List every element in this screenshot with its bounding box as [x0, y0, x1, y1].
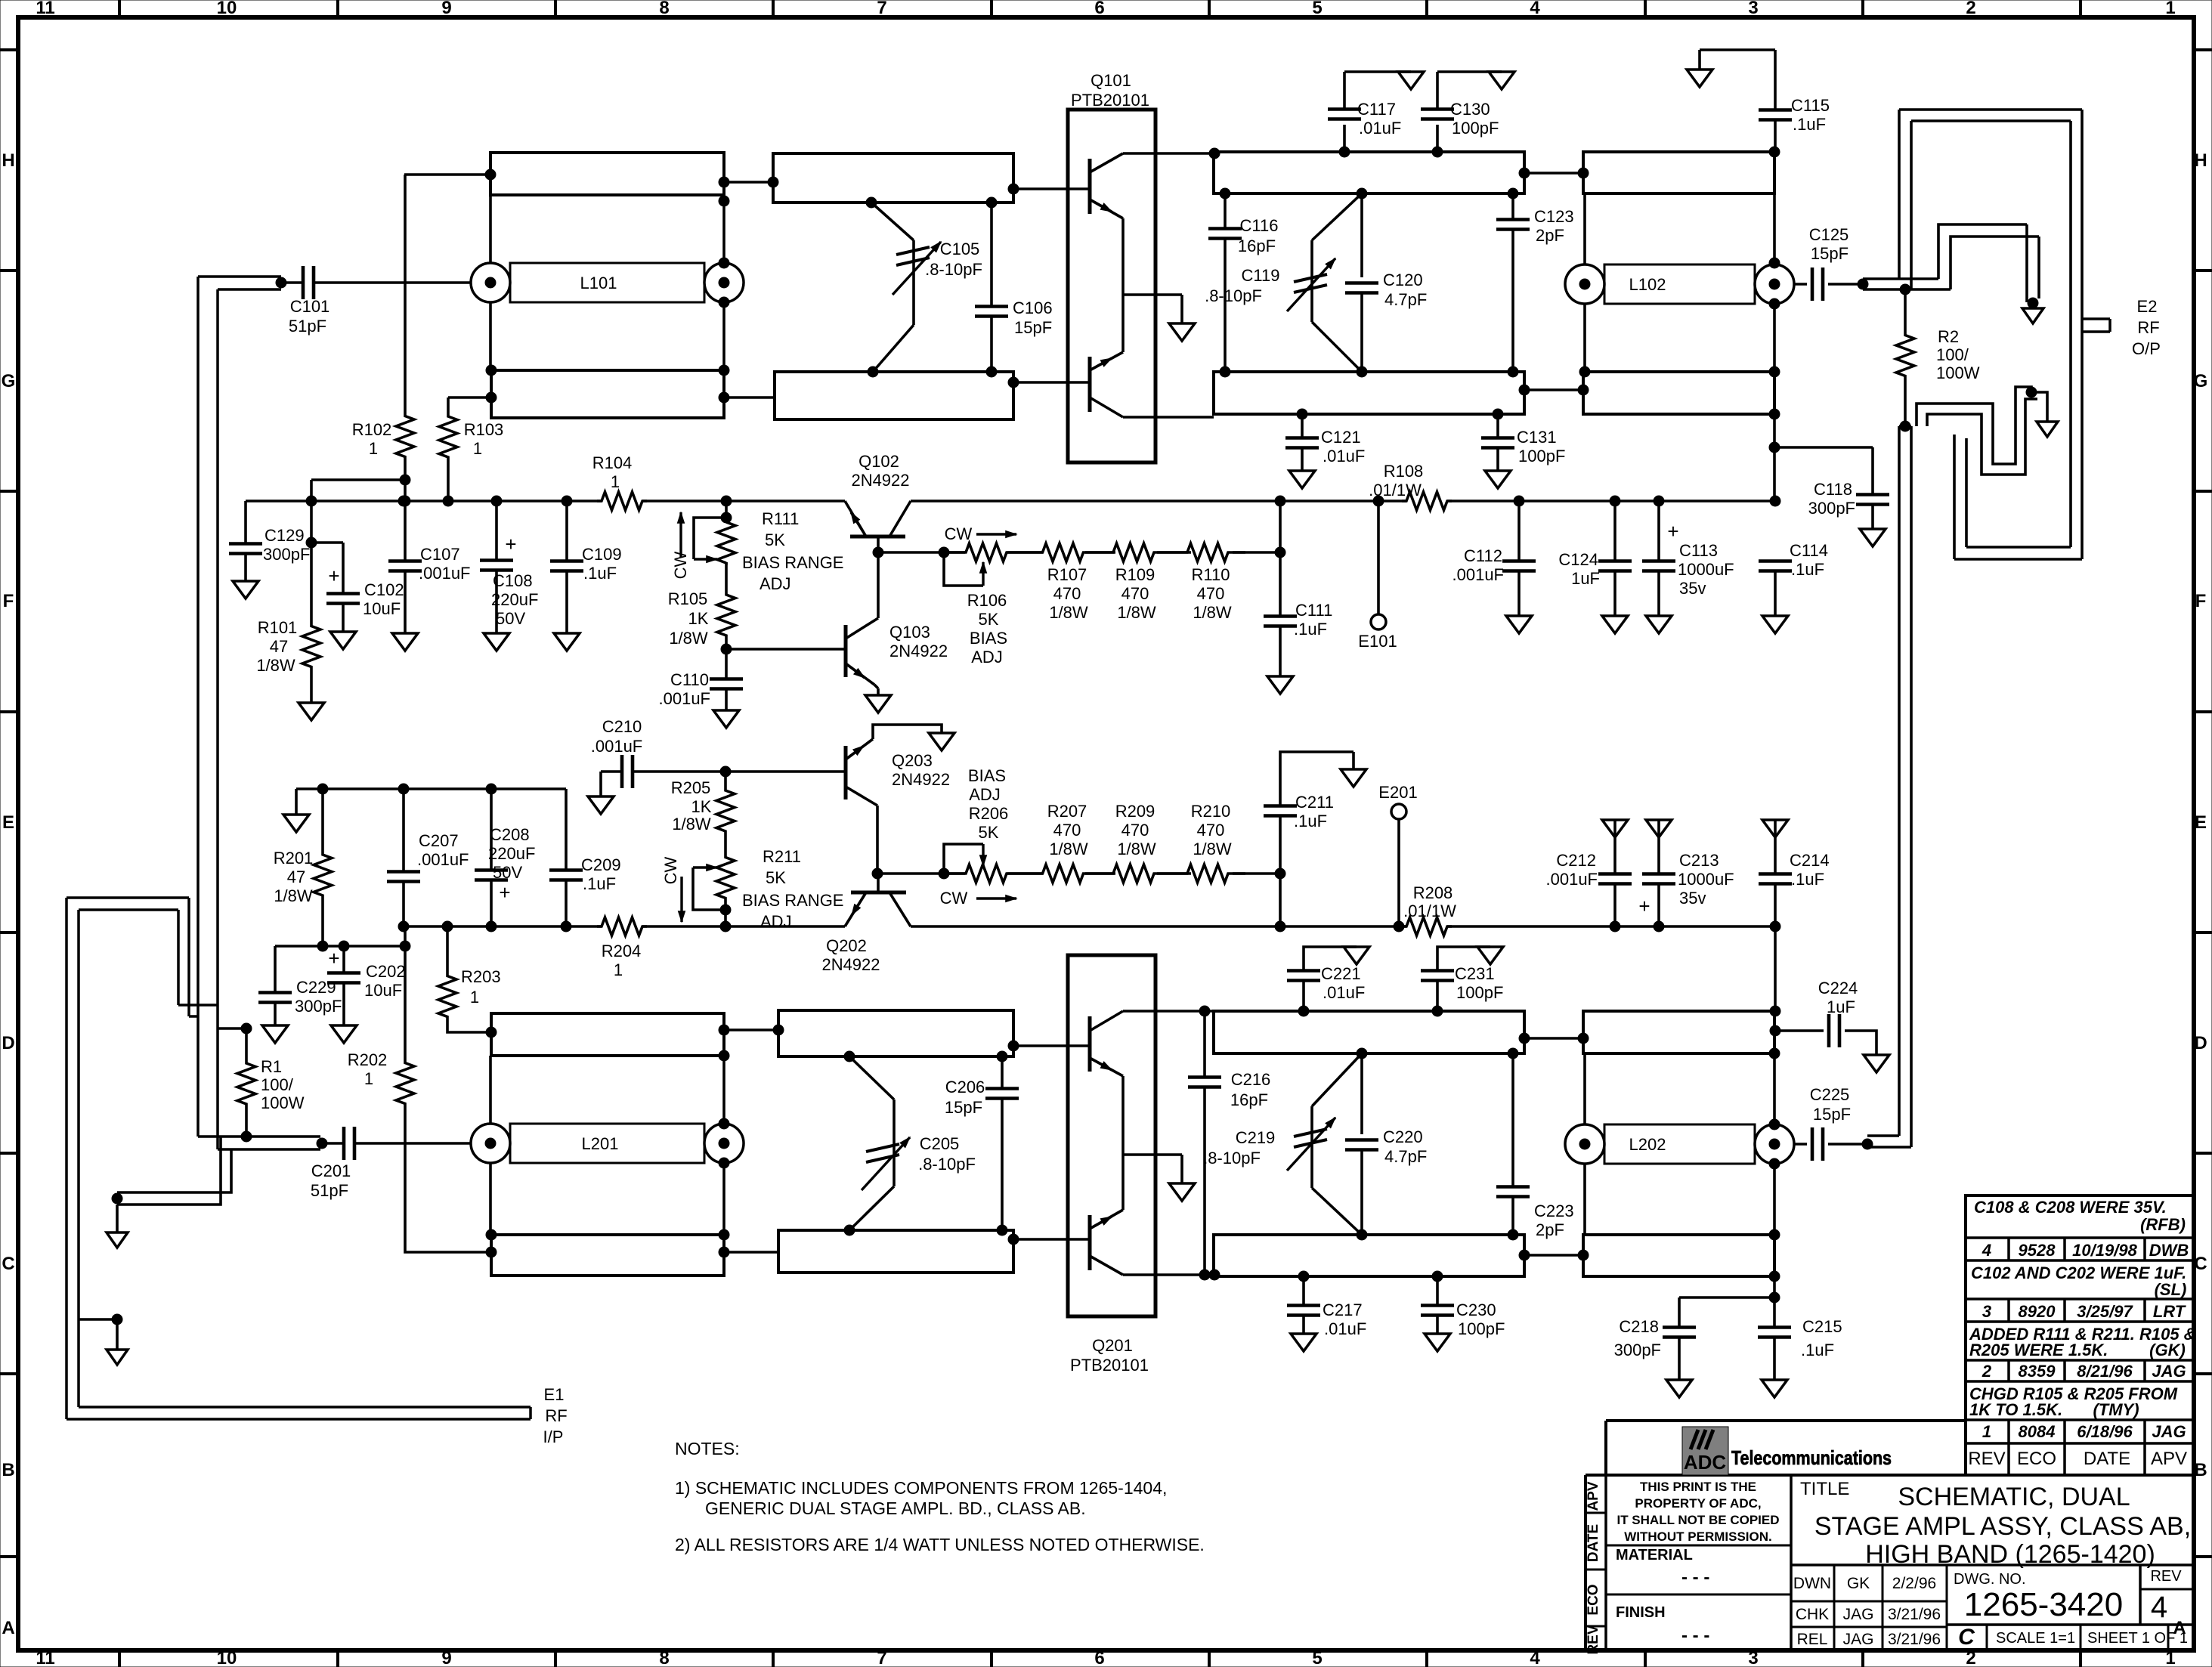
svg-text:PTB20101: PTB20101	[1071, 91, 1149, 110]
svg-text:3/21/96: 3/21/96	[1888, 1606, 1941, 1623]
svg-text:C124: C124	[1558, 550, 1598, 569]
transistor Q101 lower half	[1090, 352, 1123, 417]
svg-text:C116: C116	[1240, 216, 1279, 235]
svg-text:470: 470	[1197, 584, 1225, 603]
drawn checked released rows	[1793, 1575, 1941, 1648]
capacitor C118	[1774, 447, 1889, 546]
svg-text:10uF: 10uF	[363, 599, 401, 618]
svg-text:C110: C110	[670, 670, 709, 689]
output trace feed pair upper	[1899, 110, 1911, 289]
svg-text:LRT: LRT	[2153, 1302, 2186, 1321]
svg-text:REV: REV	[2150, 1568, 2182, 1585]
svg-text:E2: E2	[2137, 297, 2158, 316]
svg-text:PTB20101: PTB20101	[1070, 1356, 1149, 1375]
svg-text:15pF: 15pF	[945, 1098, 982, 1117]
output trace feed pair lower	[1867, 426, 1911, 1147]
capacitor C111	[1264, 496, 1332, 694]
svg-text:.01uF: .01uF	[1324, 1319, 1366, 1338]
arrow CW R211	[661, 856, 685, 922]
svg-text:C118: C118	[1814, 480, 1852, 499]
logo Telecommunications text	[1731, 1446, 1892, 1469]
svg-text:.8-10pF: .8-10pF	[1205, 286, 1262, 305]
svg-text:C121: C121	[1321, 428, 1361, 447]
svg-text:APV: APV	[1586, 1481, 1601, 1511]
wire bias rail 100	[246, 499, 1775, 503]
svg-text:+: +	[328, 564, 339, 587]
wire L101 right trunk	[719, 177, 729, 403]
svg-text:11: 11	[36, 1648, 54, 1667]
svg-text:R206: R206	[969, 804, 1009, 823]
capacitor C120	[1345, 193, 1427, 377]
svg-text:C215: C215	[1802, 1317, 1842, 1336]
svg-text:100pF: 100pF	[1456, 983, 1503, 1002]
svg-text:E: E	[2, 812, 14, 833]
arrow CW R106	[945, 524, 1016, 543]
capacitor C211	[1264, 752, 1366, 932]
svg-text:50V: 50V	[496, 609, 525, 628]
svg-text:1/8W: 1/8W	[672, 815, 711, 833]
svg-text:1/8W: 1/8W	[1193, 603, 1232, 622]
transmission line bar C205 top	[778, 1010, 1013, 1056]
transmission line bar C105 bottom	[775, 372, 1013, 419]
svg-text:C208: C208	[490, 825, 530, 844]
svg-text:HIGH BAND (1265-1420): HIGH BAND (1265-1420)	[1865, 1540, 2155, 1569]
capacitor C225	[1794, 1085, 1873, 1161]
svg-text:C112: C112	[1464, 546, 1502, 565]
svg-text:CW: CW	[945, 524, 973, 543]
svg-text:(SL): (SL)	[2155, 1280, 2187, 1299]
svg-text:R101: R101	[258, 618, 298, 637]
output trace loop right pair	[2071, 110, 2082, 559]
svg-text:100pF: 100pF	[1458, 1319, 1505, 1338]
terminal E201	[1378, 783, 1417, 932]
svg-text:51pF: 51pF	[311, 1181, 348, 1200]
wire R1 tap jog	[218, 1023, 252, 1034]
ground cap rail 200	[283, 815, 309, 832]
svg-text:C114: C114	[1790, 541, 1828, 560]
capacitor C123	[1496, 188, 1574, 377]
svg-text:C223: C223	[1534, 1202, 1574, 1220]
svg-text:.1uF: .1uF	[1793, 115, 1826, 134]
svg-text:1K TO 1.5K.: 1K TO 1.5K.	[1969, 1400, 2062, 1419]
svg-text:1K: 1K	[691, 797, 712, 816]
resistor R2	[1896, 289, 1980, 431]
wire R101 jog	[311, 480, 404, 501]
capacitor C108 polarized	[480, 496, 538, 651]
svg-text:1: 1	[611, 472, 620, 491]
revision row 3	[1982, 1302, 2186, 1321]
capacitor C116	[1208, 188, 1278, 377]
transmission line bar L101 bottom	[491, 370, 724, 418]
svg-text:R210: R210	[1191, 802, 1231, 821]
wire bottombar to bar3	[486, 365, 775, 403]
transistor Q201 upper half	[1090, 1011, 1123, 1076]
svg-text:C109: C109	[582, 545, 622, 564]
svg-text:R204: R204	[602, 942, 642, 960]
svg-text:C214: C214	[1790, 851, 1830, 870]
wire Q101 lower collector rail	[1123, 416, 1214, 419]
svg-text:DATE: DATE	[2084, 1449, 2130, 1469]
wire interstage2 to L202 bottom	[1519, 1250, 1589, 1260]
svg-text:C229: C229	[296, 978, 336, 997]
svg-text:R205 WERE 1.5K.: R205 WERE 1.5K.	[1969, 1341, 2108, 1359]
svg-text:PROPERTY OF ADC,: PROPERTY OF ADC,	[1635, 1496, 1761, 1511]
svg-text:1/8W: 1/8W	[1117, 840, 1156, 858]
svg-text:C120: C120	[1383, 271, 1423, 289]
transmission line bar interstage bottom	[1214, 372, 1524, 414]
svg-text:+: +	[328, 947, 339, 970]
svg-text:16pF: 16pF	[1238, 237, 1276, 255]
wire output node pair	[1863, 279, 1951, 295]
input trace E1 left pair	[67, 898, 79, 1419]
wire S meander ground stub	[2031, 392, 2058, 437]
svg-text:5K: 5K	[979, 823, 999, 842]
svg-text:C230: C230	[1456, 1301, 1496, 1319]
transmission line bar L102 top	[1583, 152, 1774, 193]
svg-text:6/18/96: 6/18/96	[2077, 1422, 2133, 1441]
svg-text:C211: C211	[1295, 793, 1334, 812]
svg-text:R109: R109	[1115, 565, 1155, 584]
svg-text:4: 4	[1530, 1648, 1540, 1667]
transmission line bar L202 top	[1583, 1011, 1774, 1053]
svg-text:1/8W: 1/8W	[256, 656, 295, 675]
svg-text:NOTES:: NOTES:	[675, 1439, 740, 1458]
svg-text:47: 47	[287, 868, 305, 886]
inductor L102	[1565, 264, 1794, 304]
svg-text:470: 470	[1121, 821, 1149, 840]
title block property text	[1616, 1480, 1779, 1544]
svg-text:ADJ: ADJ	[760, 912, 792, 931]
inductor L101	[471, 263, 744, 302]
svg-text:.01/1W: .01/1W	[1403, 902, 1456, 920]
svg-text:CW: CW	[661, 856, 680, 884]
arrow CW R206	[940, 889, 1016, 908]
terminal stub E2 RF O/P	[2082, 297, 2161, 358]
resistor R103	[439, 397, 503, 506]
svg-text:(RFB): (RFB)	[2140, 1215, 2186, 1234]
svg-text:L202: L202	[1629, 1135, 1666, 1154]
wire interstage2 to L202 top	[1519, 1033, 1589, 1044]
resistor R107	[1029, 543, 1097, 622]
resistor R201	[274, 784, 332, 951]
wire bias jog 200	[275, 941, 405, 951]
terminal E101	[1358, 496, 1397, 651]
svg-text:300pF: 300pF	[1614, 1341, 1661, 1359]
svg-text:5: 5	[1312, 1648, 1322, 1667]
capacitor C102 polarized	[311, 543, 404, 649]
arrow CW R111	[671, 512, 690, 579]
svg-text:1K: 1K	[688, 609, 709, 628]
transmission line bar L101 top	[490, 153, 724, 195]
svg-text:R1: R1	[261, 1057, 282, 1076]
transmission line bar interstage2 top	[1214, 1011, 1524, 1053]
svg-text:5K: 5K	[979, 610, 999, 629]
resistor R109	[1097, 543, 1170, 622]
capacitor C207	[387, 784, 469, 932]
svg-text:GENERIC DUAL STAGE AMPL. B: GENERIC DUAL STAGE AMPL. BD., CLASS AB.	[705, 1498, 1086, 1518]
svg-text:R208: R208	[1413, 883, 1453, 902]
svg-text:SHEET 1 OF 1: SHEET 1 OF 1	[2087, 1630, 2188, 1647]
capacitor C130	[1421, 72, 1514, 157]
svg-text:100W: 100W	[1936, 363, 1980, 382]
svg-text:C201: C201	[311, 1161, 351, 1180]
svg-text:(GK): (GK)	[2149, 1341, 2186, 1359]
svg-text:35v: 35v	[1679, 579, 1706, 598]
wire L201 bar to next bottom	[486, 1229, 778, 1257]
svg-text:Q203: Q203	[892, 751, 933, 770]
potentiometer R206	[939, 766, 1029, 883]
transmission line bar L102 bottom	[1583, 372, 1774, 414]
transistor Q201 lower half	[1090, 1210, 1123, 1275]
transistor Q202	[821, 874, 911, 974]
svg-text:R202: R202	[348, 1050, 388, 1069]
svg-text:47: 47	[270, 637, 288, 656]
svg-text:1: 1	[2165, 0, 2175, 18]
wire L102 right trunk	[1769, 147, 1780, 377]
svg-text:2: 2	[1966, 0, 1975, 18]
svg-text:1000uF: 1000uF	[1678, 870, 1734, 889]
svg-text:1/8W: 1/8W	[274, 886, 313, 905]
wire C210 to Q203 base	[725, 770, 846, 773]
revision note row GK	[1969, 1325, 2196, 1359]
resistor R104	[592, 453, 647, 510]
wire bar3 to Q101 lower base	[1008, 377, 1090, 388]
capacitor C206	[945, 1051, 1019, 1236]
svg-text:.1uF: .1uF	[1294, 812, 1327, 830]
resistor R203	[438, 921, 501, 1038]
svg-text:RF: RF	[2137, 318, 2159, 337]
svg-text:R111: R111	[762, 509, 799, 528]
revision table grid	[1966, 1195, 2194, 1475]
svg-text:9: 9	[441, 0, 451, 18]
revision header row	[1968, 1449, 2187, 1469]
svg-text:2: 2	[1966, 1648, 1975, 1667]
svg-text:4: 4	[1982, 1241, 1991, 1260]
svg-text:SCHEMATIC, DUAL: SCHEMATIC, DUAL	[1898, 1483, 2130, 1511]
node C101 input junction	[276, 277, 286, 288]
svg-text:100/: 100/	[1936, 345, 1969, 364]
svg-text:C131: C131	[1517, 428, 1557, 447]
resistor R209	[1097, 802, 1170, 883]
svg-text:1/8W: 1/8W	[1117, 603, 1156, 622]
svg-text:6: 6	[1094, 1648, 1104, 1667]
svg-text:1265-3420: 1265-3420	[1964, 1586, 2123, 1623]
svg-text:CW: CW	[671, 551, 690, 579]
svg-text:1/8W: 1/8W	[1193, 840, 1232, 858]
capacitor C215	[1758, 1317, 1842, 1397]
node C201 input junction	[317, 1138, 327, 1149]
capacitor C209	[549, 789, 621, 932]
dwg no field	[1954, 1568, 2182, 1624]
revision note row RFB	[1974, 1198, 2186, 1234]
svg-text:(TMY): (TMY)	[2093, 1400, 2139, 1419]
svg-text:R107: R107	[1047, 565, 1087, 584]
svg-text:GK: GK	[1847, 1575, 1870, 1592]
svg-text:B: B	[2194, 1460, 2207, 1480]
svg-text:3: 3	[1748, 1648, 1758, 1667]
capacitor C224	[1770, 979, 1889, 1072]
logo ADC box	[1682, 1427, 1728, 1475]
svg-text:JAG: JAG	[1843, 1631, 1874, 1648]
capacitor C221	[1287, 947, 1369, 1016]
svg-text:220uF: 220uF	[491, 590, 538, 609]
capacitor C229	[258, 946, 342, 1043]
svg-text:1/8W: 1/8W	[1049, 840, 1088, 858]
notes text	[675, 1439, 1205, 1554]
svg-text:4.7pF: 4.7pF	[1384, 290, 1427, 309]
svg-text:16pF: 16pF	[1230, 1090, 1268, 1109]
input trace C101 feed pair	[198, 277, 218, 1149]
capacitor C230	[1421, 1271, 1505, 1351]
svg-text:.1uF: .1uF	[1791, 560, 1824, 579]
revision note row TMY	[1969, 1384, 2178, 1419]
wire cap top rail 200	[296, 789, 566, 815]
svg-text:220uF: 220uF	[488, 844, 535, 863]
capacitor C110	[659, 649, 744, 728]
transmission line bar C205 bottom	[778, 1230, 1013, 1273]
svg-text:STAGE AMPL ASSY, CLASS AB,: STAGE AMPL ASSY, CLASS AB,	[1814, 1512, 2191, 1541]
svg-text:.1uF: .1uF	[1791, 870, 1824, 889]
svg-text:C202: C202	[366, 962, 406, 981]
svg-text:2N4922: 2N4922	[892, 770, 950, 789]
resistor R202	[348, 926, 491, 1252]
svg-text:C123: C123	[1534, 207, 1574, 226]
variable capacitor C205	[844, 1051, 976, 1236]
stub meander upper with ground	[1938, 224, 2043, 323]
svg-text:4: 4	[2151, 1591, 2167, 1624]
wire bar1 to bar2	[724, 177, 778, 187]
capacitor C218b	[1614, 1297, 1774, 1397]
svg-text:C231: C231	[1455, 964, 1495, 983]
title block side strip labels	[1586, 1481, 1601, 1654]
svg-text:.1uF: .1uF	[583, 564, 617, 583]
svg-text:Q202: Q202	[826, 936, 867, 955]
capacitor C223	[1496, 1048, 1574, 1240]
svg-text:E201: E201	[1378, 783, 1417, 802]
svg-text:C130: C130	[1450, 100, 1490, 119]
transmission line bar interstage top	[1214, 152, 1524, 193]
capacitor C129	[229, 501, 310, 598]
svg-text:C216: C216	[1231, 1070, 1271, 1089]
revision row 1	[1982, 1422, 2186, 1441]
wire Q101 emitters to ground	[1123, 218, 1182, 352]
svg-text:C218: C218	[1619, 1317, 1659, 1336]
svg-text:C117: C117	[1357, 100, 1396, 119]
wire L202 left stubs	[1583, 1053, 1586, 1235]
svg-text:R102: R102	[352, 420, 392, 439]
svg-text:R104: R104	[592, 453, 633, 472]
svg-text:F: F	[3, 591, 14, 611]
svg-text:+: +	[1667, 520, 1678, 543]
svg-text:ADJ: ADJ	[760, 574, 791, 593]
resistor R208	[1402, 883, 1456, 936]
svg-text:.1uF: .1uF	[1801, 1341, 1834, 1359]
finish field	[1616, 1604, 1709, 1646]
wire Q201 emitters to ground	[1123, 1076, 1182, 1210]
wire C114 lower	[1762, 571, 1788, 633]
svg-text:2N4922: 2N4922	[851, 471, 909, 490]
svg-text:C119: C119	[1242, 266, 1280, 285]
svg-text:Telecommunications: Telecommunications	[1731, 1446, 1892, 1469]
ground Q101 emitter	[1169, 323, 1195, 341]
svg-text:1: 1	[473, 439, 482, 458]
input trace E1 top pair	[67, 898, 189, 910]
svg-text:C111: C111	[1295, 601, 1332, 620]
svg-text:THIS PRINT IS THE: THIS PRINT IS THE	[1640, 1480, 1756, 1494]
svg-text:5K: 5K	[765, 530, 785, 549]
svg-text:R211: R211	[763, 847, 801, 866]
svg-text:8: 8	[659, 0, 669, 18]
svg-text:C205: C205	[920, 1134, 960, 1153]
svg-text:7: 7	[877, 0, 886, 18]
svg-text:BIAS RANGE: BIAS RANGE	[742, 891, 843, 910]
svg-text:C220: C220	[1383, 1127, 1423, 1146]
svg-text:C219: C219	[1236, 1128, 1276, 1147]
inductor L202	[1565, 1124, 1794, 1164]
potentiometer R211	[693, 833, 843, 932]
resistor R101	[256, 496, 324, 720]
svg-text:C102: C102	[364, 580, 404, 599]
svg-text:C129: C129	[265, 526, 305, 545]
svg-text:15pF: 15pF	[1813, 1105, 1851, 1124]
capacitor C220	[1345, 1048, 1427, 1235]
capacitor C121	[1285, 409, 1365, 488]
capacitor C201	[311, 1127, 471, 1200]
svg-text:E101: E101	[1358, 632, 1397, 651]
resistor R204	[597, 917, 647, 979]
svg-text:15pF: 15pF	[1014, 318, 1052, 337]
svg-text:C113: C113	[1679, 541, 1718, 560]
resistor R105	[668, 562, 735, 654]
svg-text:JAG: JAG	[2152, 1362, 2186, 1381]
svg-text:G: G	[2, 371, 16, 391]
capacitor C217	[1287, 1271, 1366, 1351]
transmission line bar L202 bottom	[1583, 1235, 1774, 1276]
svg-text:DWG. NO.: DWG. NO.	[1954, 1571, 2026, 1588]
svg-text:8084: 8084	[2019, 1422, 2056, 1441]
capacitor C208 polarized	[475, 784, 535, 932]
svg-text:C105: C105	[940, 240, 980, 258]
svg-text:D: D	[2194, 1033, 2207, 1053]
svg-text:8/21/96: 8/21/96	[2077, 1362, 2133, 1381]
capacitor C101	[281, 266, 471, 336]
input trace E1 bottom pair	[67, 1407, 531, 1419]
svg-text:51pF: 51pF	[289, 317, 326, 336]
svg-text:REV: REV	[1968, 1449, 2005, 1469]
svg-text:8359: 8359	[2019, 1362, 2056, 1381]
material field	[1616, 1547, 1709, 1588]
capacitor C117	[1328, 72, 1424, 157]
svg-text:2N4922: 2N4922	[889, 642, 948, 660]
svg-text:C: C	[2, 1254, 14, 1274]
svg-text:C221: C221	[1321, 964, 1361, 983]
transmission line bar C105 top	[773, 153, 1013, 203]
svg-text:F: F	[2195, 591, 2207, 611]
svg-text:100W: 100W	[261, 1093, 305, 1112]
svg-text:MATERIAL: MATERIAL	[1616, 1547, 1693, 1563]
wire bias rail 200	[404, 925, 1775, 928]
svg-text:1000uF: 1000uF	[1678, 560, 1734, 579]
input trace E1 descent pair	[178, 898, 218, 1016]
svg-text:L101: L101	[580, 274, 617, 292]
svg-text:C107: C107	[420, 545, 460, 564]
svg-text:300pF: 300pF	[263, 545, 310, 564]
svg-text:L201: L201	[582, 1134, 619, 1153]
wire interstage to L102 bottom	[1519, 385, 1589, 395]
resistor R207	[1029, 802, 1097, 883]
svg-text:10: 10	[217, 1648, 237, 1667]
wire L101 left shield stubs	[489, 195, 492, 370]
